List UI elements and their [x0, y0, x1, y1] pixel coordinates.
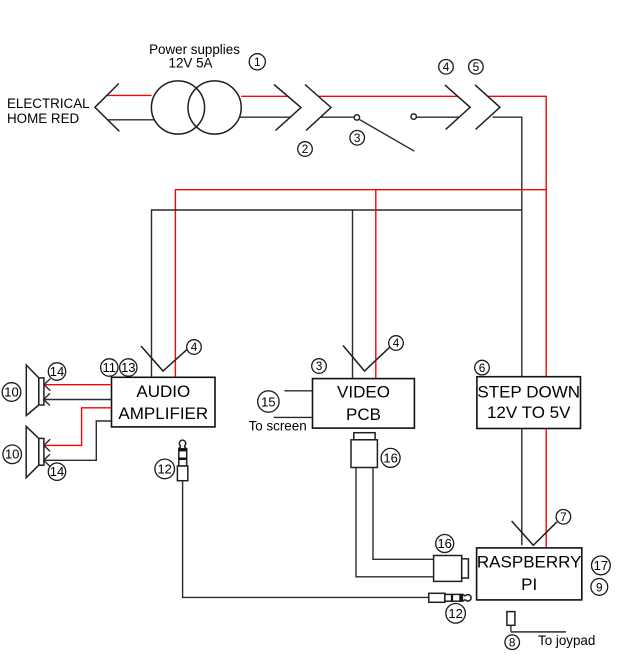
svg-text:2: 2 [302, 142, 309, 156]
svg-text:16: 16 [437, 536, 451, 551]
svg-text:To screen: To screen [249, 419, 307, 434]
svg-text:12V TO 5V: 12V TO 5V [487, 403, 571, 422]
node 6 [475, 360, 490, 375]
node 15 [258, 391, 279, 412]
wire black amp to speaker LS2 [44, 421, 112, 466]
usb cable left [356, 468, 434, 577]
node 9 [591, 579, 608, 596]
node 10 top [2, 383, 21, 402]
svg-text:14: 14 [50, 464, 64, 479]
label ELECTRICAL HOME RED [7, 96, 90, 126]
usb cable right [373, 468, 434, 560]
svg-text:17: 17 [594, 558, 608, 573]
wire black to switch [321, 116, 355, 118]
svg-text:PCB: PCB [346, 405, 381, 424]
svg-text:10: 10 [5, 447, 19, 462]
box video pcb [313, 379, 415, 429]
svg-text:16: 16 [383, 450, 397, 465]
node 14 bottom [48, 463, 65, 480]
svg-text:AMPLIFIER: AMPLIFIER [118, 404, 208, 423]
jack cable amp to pi [183, 481, 429, 598]
svg-text:4: 4 [191, 340, 198, 354]
svg-text:14: 14 [50, 364, 64, 379]
svg-text:9: 9 [596, 580, 603, 594]
node 10 bottom [3, 445, 22, 464]
wire red step-down to raspberry pi [545, 429, 547, 548]
box step down 12V to 5V [477, 377, 581, 429]
svg-text:PI: PI [521, 575, 537, 594]
speaker LS2 [26, 426, 44, 477]
switch S1 [354, 114, 416, 151]
svg-text:6: 6 [479, 361, 486, 375]
svg-text:10: 10 [4, 385, 18, 400]
node 4 audio [187, 340, 202, 355]
svg-text:12: 12 [157, 462, 171, 477]
wire red to step-down (top run + drop) [488, 96, 546, 376]
wire red amp to speaker LS1 [44, 379, 111, 391]
node 13 [120, 359, 137, 376]
node 12 pi [446, 604, 466, 624]
jack plug 12 under amplifier [177, 440, 187, 481]
svg-text:AUDIO: AUDIO [136, 382, 190, 401]
svg-text:To joypad: To joypad [538, 633, 595, 648]
node 4 [439, 60, 454, 75]
connector arrow to electrical home [95, 84, 120, 132]
svg-text:Power supplies: Power supplies [149, 42, 240, 57]
node 3 video [312, 359, 327, 374]
transformer T1 [151, 81, 241, 134]
svg-text:7: 7 [560, 510, 567, 524]
jack plug 12 at raspberry pi [429, 593, 471, 602]
node 11 [101, 359, 118, 379]
wire red amp to speaker LS2 [44, 408, 112, 452]
usb plug 16 at raspberry pi [434, 556, 469, 582]
svg-text:RASPBERRY: RASPBERRY [477, 553, 582, 572]
wire to screen bottom [274, 416, 313, 418]
wire red drop to video pcb [375, 190, 377, 379]
node 12 amp [155, 459, 175, 479]
svg-text:1: 1 [254, 55, 261, 69]
svg-text:3: 3 [354, 131, 361, 145]
wire black switch to connector [416, 116, 459, 118]
wire red mains left [107, 94, 152, 96]
node 4 video [389, 336, 404, 351]
svg-text:VIDEO: VIDEO [337, 382, 390, 401]
svg-text:12: 12 [448, 606, 462, 621]
wire black mains left [108, 119, 154, 121]
wire black bus horizontal [152, 210, 522, 377]
svg-text:13: 13 [121, 360, 135, 375]
node 5 [469, 60, 484, 75]
node 16 video [381, 448, 400, 467]
node 3 [350, 131, 365, 146]
connector pair 4-5 [445, 85, 500, 130]
node 14 top [48, 363, 65, 380]
wire black mains right [239, 116, 290, 118]
arrow into raspberry pi [512, 521, 557, 545]
speaker LS1 [26, 365, 44, 415]
joypad connector 8 [507, 612, 566, 632]
label Power supplies 12V 5A [149, 42, 240, 71]
arrow into video pcb [343, 346, 390, 372]
wire black step-down to raspberry pi [521, 429, 523, 546]
svg-text:15: 15 [261, 394, 275, 409]
node 2 [298, 142, 313, 157]
svg-text:4: 4 [443, 60, 450, 74]
wire red between connectors [318, 95, 457, 97]
node 16 pi [436, 535, 454, 553]
wire black amp to speaker LS1 [44, 393, 112, 405]
node 17 [592, 556, 611, 575]
svg-text:11: 11 [103, 360, 117, 375]
node 1 [249, 54, 265, 70]
svg-text:5: 5 [473, 60, 480, 74]
svg-text:12V 5A: 12V 5A [169, 56, 213, 71]
arrow into audio amplifier [141, 346, 188, 371]
node 7 [556, 510, 571, 525]
svg-text:STEP DOWN: STEP DOWN [477, 382, 580, 401]
node 8 [505, 635, 520, 650]
wire red mains right [241, 95, 288, 97]
svg-text:4: 4 [393, 336, 400, 350]
box audio amplifier [112, 377, 216, 427]
box raspberry pi [477, 548, 582, 600]
svg-text:3: 3 [316, 359, 323, 373]
wire red bus horizontal [175, 190, 546, 378]
svg-text:8: 8 [509, 635, 516, 649]
connector pair 2 [274, 85, 331, 131]
wire to screen top [284, 390, 312, 392]
wire black drop to video pcb [352, 210, 354, 379]
svg-text:HOME RED: HOME RED [7, 111, 79, 126]
svg-text:ELECTRICAL: ELECTRICAL [7, 96, 90, 111]
usb plug 16 under video pcb [351, 433, 377, 468]
wire black to step-down (top run + drop) [493, 117, 522, 377]
